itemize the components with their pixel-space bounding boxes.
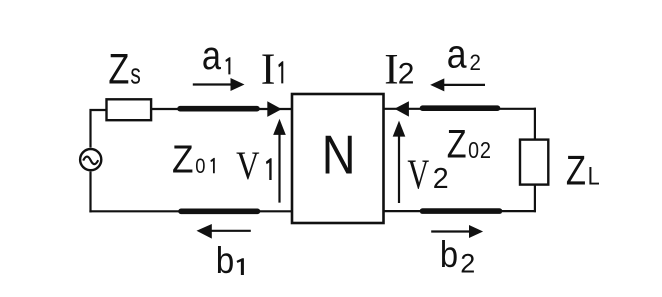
svg-text:Z: Z	[172, 139, 194, 182]
arrowhead I2 into network	[394, 101, 409, 116]
label Zs	[108, 46, 140, 94]
wire from load to bottom	[534, 186, 536, 213]
svg-text:b: b	[216, 239, 235, 281]
label b1	[216, 239, 244, 281]
wire left vertical below source	[89, 172, 91, 213]
wire bottom-left	[89, 210, 292, 212]
svg-text:b: b	[440, 234, 458, 275]
arrow V2 (port-2 voltage, upward)	[393, 121, 406, 203]
arrow b2 (reflected wave, rightward)	[431, 225, 483, 238]
arrow a2 (incident wave, leftward)	[430, 78, 485, 91]
arrowhead I1 into network	[267, 101, 281, 117]
label b2	[440, 234, 475, 279]
wire right vertical to load	[534, 108, 536, 139]
wire bottom-right	[384, 210, 537, 212]
arrow a1 (incident wave, rightward)	[193, 78, 245, 91]
transmission line bar Z01 bottom	[181, 209, 258, 215]
label Z01	[172, 139, 215, 182]
transmission line bar Z02 top	[423, 105, 498, 111]
svg-text:N: N	[322, 124, 356, 186]
svg-text:2: 2	[433, 163, 449, 195]
label a1 with subscript	[202, 34, 230, 78]
label ZL	[566, 147, 600, 194]
resistor Zs	[107, 99, 152, 120]
source Vs (AC source circle)	[80, 149, 101, 170]
svg-text:2: 2	[398, 58, 415, 91]
svg-text:0: 0	[468, 137, 479, 163]
svg-text:0: 0	[195, 155, 205, 178]
transmission line bar Z02 bottom	[423, 208, 500, 214]
transmission line bar Z01 top	[180, 106, 257, 112]
label Z02	[447, 121, 491, 166]
svg-text:L: L	[588, 164, 600, 191]
label a2	[447, 33, 481, 77]
arrow b1 (reflected wave, leftward)	[197, 224, 251, 239]
arrow V1 (port-1 voltage, upward)	[273, 119, 286, 203]
svg-text:a: a	[202, 34, 222, 78]
label I1	[261, 44, 284, 93]
svg-text:I: I	[261, 44, 276, 93]
label I2	[384, 47, 414, 94]
svg-text:Z: Z	[566, 147, 586, 194]
svg-text:Z: Z	[108, 46, 129, 94]
wire top from network N to right corner	[384, 108, 537, 110]
svg-text:2: 2	[460, 249, 475, 279]
wire top from resistor to network N	[152, 108, 292, 110]
svg-text:V: V	[407, 152, 429, 199]
label V1	[236, 143, 272, 188]
svg-text:2: 2	[480, 137, 491, 163]
svg-text:V: V	[236, 143, 259, 188]
load ZL	[520, 140, 548, 185]
svg-text:Z: Z	[447, 121, 467, 166]
svg-text:2: 2	[470, 50, 481, 75]
svg-text:s: s	[130, 59, 140, 91]
label V2	[407, 152, 448, 199]
svg-text:I: I	[384, 47, 398, 94]
svg-text:a: a	[447, 33, 467, 77]
two-port network N box	[292, 94, 384, 223]
wire top-left from source to resistor	[91, 110, 107, 148]
